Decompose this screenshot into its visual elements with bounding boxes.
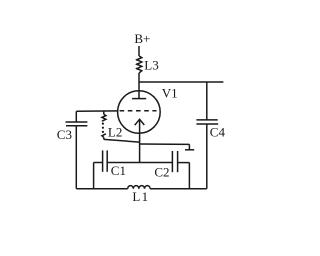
svg-text:C2: C2 bbox=[154, 164, 169, 179]
svg-text:C4: C4 bbox=[210, 124, 226, 139]
svg-text:L2: L2 bbox=[108, 124, 122, 139]
svg-text:B+: B+ bbox=[134, 31, 150, 46]
svg-text:C1: C1 bbox=[111, 163, 126, 178]
svg-text:V1: V1 bbox=[162, 86, 178, 101]
svg-text:C3: C3 bbox=[57, 127, 72, 142]
svg-text:L3: L3 bbox=[144, 57, 158, 72]
svg-text:L1: L1 bbox=[132, 189, 149, 204]
